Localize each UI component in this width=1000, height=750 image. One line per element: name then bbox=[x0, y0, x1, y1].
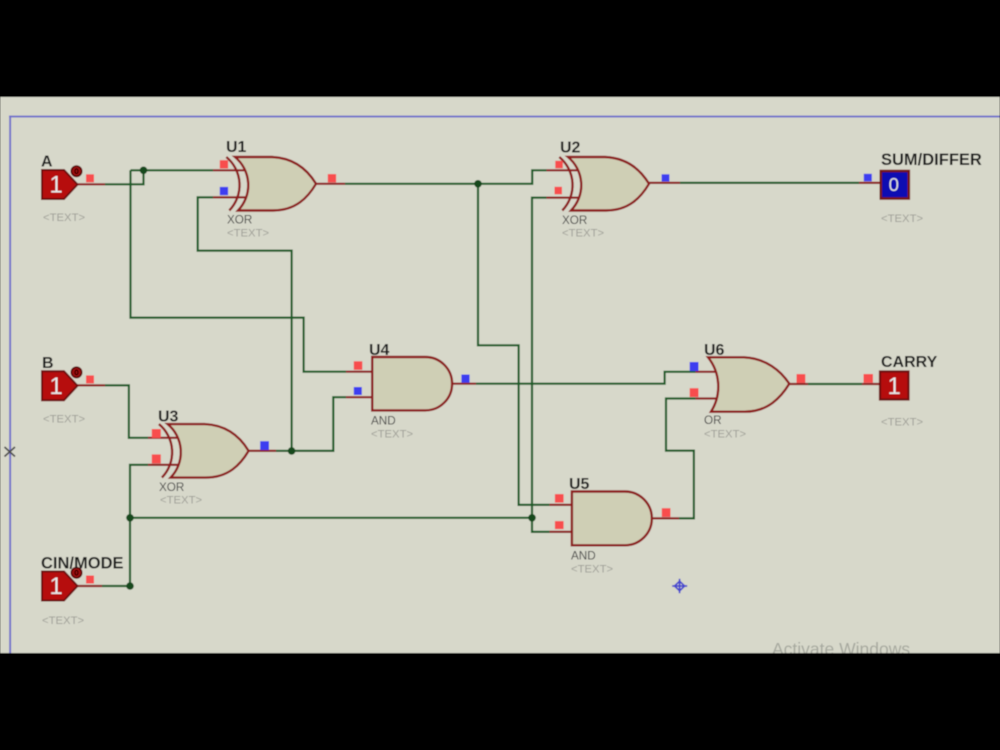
node square U2 inB bbox=[555, 187, 563, 195]
logic probe CARRY bbox=[880, 372, 909, 400]
svg-text:A: A bbox=[41, 154, 53, 171]
logic input pin CIN/MODE bbox=[42, 568, 82, 601]
svg-text:U1: U1 bbox=[226, 139, 247, 156]
wire CIN to U5 input B bbox=[532, 518, 550, 532]
node square U4 inA bbox=[354, 361, 363, 370]
logic input pin B bbox=[42, 367, 82, 400]
wire U6 output to CARRY pin bbox=[808, 383, 862, 385]
logic probe SUM/DIFFER bbox=[881, 171, 909, 199]
node square U2 out bbox=[662, 174, 670, 181]
wire stub U5 inputs and output bbox=[550, 504, 575, 506]
node square SUM pin bbox=[864, 174, 872, 182]
node square U3 out bbox=[260, 441, 269, 450]
node square U5 inB bbox=[555, 521, 564, 529]
svg-text:OR: OR bbox=[704, 414, 722, 427]
wire stub B pin bbox=[77, 384, 105, 386]
wire CIN long horizontal to U5 bbox=[130, 517, 532, 519]
svg-text:B: B bbox=[42, 355, 54, 372]
svg-text:AND: AND bbox=[371, 415, 396, 428]
sheet border frame left bbox=[9, 116, 11, 653]
xor gate U1 bbox=[226, 157, 316, 211]
svg-text:<TEXT>: <TEXT> bbox=[881, 417, 923, 429]
wire U4 output to U6 input A bbox=[476, 372, 696, 384]
wire B pin to U3 input A bbox=[105, 385, 148, 437]
svg-text:U2: U2 bbox=[560, 140, 581, 157]
svg-text:1: 1 bbox=[49, 172, 62, 199]
svg-text:U4: U4 bbox=[369, 342, 390, 359]
svg-text:CIN/MODE: CIN/MODE bbox=[41, 555, 124, 573]
svg-text:1: 1 bbox=[49, 373, 62, 400]
cursor x mark bbox=[5, 447, 16, 457]
svg-text:<TEXT>: <TEXT> bbox=[42, 615, 84, 627]
node square B pin bbox=[86, 375, 94, 383]
wire A pin to junction bbox=[105, 170, 144, 184]
xor gate U2 bbox=[559, 157, 649, 211]
node CIN junction 2 bbox=[528, 514, 536, 522]
svg-text:U6: U6 bbox=[704, 342, 725, 359]
bottom letterbox bar bbox=[0, 653, 1000, 750]
svg-text:<TEXT>: <TEXT> bbox=[371, 429, 413, 441]
svg-text:XOR: XOR bbox=[227, 214, 252, 227]
wire CIN pin to junction bbox=[102, 585, 130, 587]
wire net A to U1 input A bbox=[131, 169, 214, 171]
node square U4 inB bbox=[354, 387, 362, 395]
wire U2 output to SUM pin bbox=[680, 182, 859, 184]
node CIN junction 3 bbox=[126, 582, 134, 590]
svg-text:<TEXT>: <TEXT> bbox=[43, 413, 85, 425]
wire U5 output to U6 input B bbox=[666, 399, 696, 519]
node square U5 inA bbox=[555, 494, 564, 503]
wire stub U1 inputs and output bbox=[213, 169, 249, 171]
node square U5 out bbox=[662, 508, 671, 517]
node square U1 inA bbox=[220, 160, 228, 168]
svg-text:SUM/DIFFER: SUM/DIFFER bbox=[881, 151, 982, 169]
node square U2 inA bbox=[555, 161, 563, 169]
wire stub SUM pin bbox=[859, 182, 881, 184]
origin crosshair marker bbox=[672, 579, 687, 593]
wire U3 output to junction bbox=[276, 450, 292, 452]
svg-text:<TEXT>: <TEXT> bbox=[704, 429, 746, 441]
svg-text:<TEXT>: <TEXT> bbox=[160, 495, 202, 507]
or gate U6 bbox=[708, 357, 789, 411]
node square U6 out bbox=[797, 374, 806, 383]
wire U1 output to junction bbox=[345, 183, 478, 185]
wire stub U2 inputs and output bbox=[547, 169, 583, 171]
svg-text:<TEXT>: <TEXT> bbox=[881, 213, 923, 225]
svg-text:XOR: XOR bbox=[159, 481, 184, 494]
svg-text:AND: AND bbox=[571, 550, 596, 563]
wire CIN up to U2 input B bbox=[532, 198, 547, 518]
node square CARRY pin bbox=[864, 374, 874, 383]
svg-text:<TEXT>: <TEXT> bbox=[227, 228, 269, 240]
svg-text:0: 0 bbox=[889, 174, 899, 195]
node square U1 out bbox=[328, 174, 336, 182]
svg-text:CARRY: CARRY bbox=[881, 354, 938, 371]
wire U3 output up to U1 input B bbox=[198, 197, 292, 451]
node U1 output junction bbox=[474, 180, 482, 188]
svg-text:U3: U3 bbox=[158, 409, 179, 426]
wire net A down to U4 input A bbox=[131, 170, 347, 371]
svg-text:XOR: XOR bbox=[562, 214, 587, 227]
node U3 output junction bbox=[288, 447, 296, 455]
node square CIN pin bbox=[86, 576, 94, 584]
logic input pin A bbox=[42, 166, 82, 199]
sheet border frame top bbox=[9, 116, 1000, 118]
wire U3 output to U4 input B bbox=[292, 397, 346, 451]
svg-text:U5: U5 bbox=[569, 476, 590, 493]
wire CIN up to U3 input B bbox=[130, 465, 148, 586]
svg-text:1: 1 bbox=[49, 573, 62, 600]
node CIN junction 1 bbox=[126, 514, 134, 522]
wire stub CARRY pin bbox=[862, 383, 881, 385]
and gate U5 bbox=[572, 492, 652, 546]
wire stub U3 inputs and output bbox=[148, 437, 182, 439]
svg-text:1: 1 bbox=[888, 373, 901, 400]
wire stub U6 inputs and output bbox=[696, 371, 720, 373]
wire stub CIN pin bbox=[78, 585, 103, 587]
wire stub A pin bbox=[77, 183, 105, 185]
and gate U4 bbox=[372, 357, 452, 410]
svg-text:<TEXT>: <TEXT> bbox=[43, 212, 85, 224]
node square U3 inB bbox=[152, 454, 161, 463]
node square A pin bbox=[86, 174, 94, 182]
node square U1 inB bbox=[220, 187, 228, 195]
node square U6 inB bbox=[690, 388, 699, 397]
svg-text:<TEXT>: <TEXT> bbox=[562, 228, 604, 240]
wire U1 output down to U5 input A bbox=[478, 184, 550, 505]
node square U4 out bbox=[461, 375, 469, 383]
node square U3 inA bbox=[152, 429, 161, 438]
node square U6 inA bbox=[690, 362, 699, 371]
wire U1 output to U2 input A bbox=[478, 170, 547, 184]
svg-text:<TEXT>: <TEXT> bbox=[571, 564, 613, 576]
wire stub U4 inputs and output bbox=[346, 371, 374, 373]
schematic sheet background bbox=[0, 97, 1000, 653]
node A junction bbox=[140, 167, 148, 175]
xor gate U3 bbox=[159, 424, 249, 478]
